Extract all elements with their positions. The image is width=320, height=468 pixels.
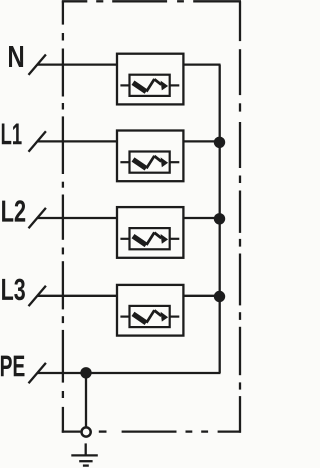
ground (earth) symbol bbox=[71, 455, 98, 465]
enclosure right border (dash-dot) bbox=[239, 1, 241, 432]
earth connection terminal (open circle) bbox=[82, 427, 91, 436]
SPD1 left lead stub bbox=[120, 84, 129, 86]
node: junction dot bus/L2 bbox=[214, 213, 225, 224]
SPD2 right lead stub bbox=[170, 161, 180, 163]
terminal label N bbox=[9, 46, 23, 67]
SPD3 outer enclosure box bbox=[117, 207, 183, 258]
SPD2 left lead stub bbox=[120, 161, 129, 163]
SPD3 left lead stub bbox=[120, 238, 129, 240]
wire L3 terminal to SPD4 bbox=[37, 295, 117, 297]
slash mark on conductor L2 bbox=[29, 208, 46, 228]
wire SPD1 output to bus corner bbox=[183, 63, 220, 65]
slash mark on conductor PE bbox=[29, 363, 46, 383]
SPD module 3 (L2) bbox=[117, 207, 183, 258]
SPD4 lightning arrow symbol bbox=[133, 310, 168, 323]
node: junction dot on PE wire bbox=[80, 367, 91, 378]
SPD2 outer enclosure box bbox=[117, 131, 183, 182]
wire SPD3 output to bus bbox=[183, 217, 219, 219]
SPD4 right lead stub bbox=[170, 316, 180, 318]
vertical bus wire (common PE bus) bbox=[219, 65, 221, 373]
wire PE node down to earth terminal bbox=[85, 373, 87, 428]
wire SPD4 output to bus bbox=[183, 295, 219, 297]
SPD4 left lead stub bbox=[120, 316, 129, 318]
wire L2 terminal to SPD3 bbox=[37, 217, 117, 219]
node: junction dot bus/L1 bbox=[214, 137, 225, 148]
SPD1 right lead stub bbox=[170, 84, 180, 86]
SPD2 spark-gap inner box bbox=[130, 152, 170, 173]
terminal label L3 bbox=[2, 279, 25, 301]
terminal label PE bbox=[1, 356, 25, 377]
SPD4 outer enclosure box bbox=[117, 285, 183, 336]
wire N terminal to SPD1 bbox=[37, 63, 117, 65]
wire earth terminal to ground symbol bbox=[85, 443, 87, 455]
SPD3 lightning arrow symbol bbox=[133, 232, 168, 245]
SPD3 right lead stub bbox=[170, 238, 180, 240]
SPD module 2 (L1) bbox=[117, 131, 183, 182]
SPD1 spark-gap inner box bbox=[130, 75, 170, 96]
slash mark on conductor L1 bbox=[29, 131, 46, 151]
terminal label L2 bbox=[2, 200, 25, 221]
SPD2 lightning arrow symbol bbox=[133, 156, 168, 169]
terminal label L1 bbox=[2, 124, 22, 145]
slash mark on conductor L3 bbox=[29, 286, 46, 306]
enclosure bottom border (dash-dot) bbox=[62, 430, 241, 432]
SPD1 outer enclosure box bbox=[117, 54, 183, 105]
wire SPD2 output to bus bbox=[183, 140, 219, 142]
enclosure top border (dash-dot) bbox=[62, 0, 241, 2]
SPD3 spark-gap inner box bbox=[130, 228, 170, 249]
wire L1 terminal to SPD2 bbox=[37, 140, 117, 142]
SPD module 4 (L3) bbox=[117, 285, 183, 336]
wire PE terminal to bus bbox=[37, 372, 220, 374]
SPD module 1 (N) bbox=[117, 54, 183, 105]
SPD1 lightning arrow symbol bbox=[133, 79, 168, 92]
enclosure left border (dash-dot) bbox=[62, 1, 64, 432]
node: junction dot bus/L3 bbox=[214, 291, 225, 302]
SPD4 spark-gap inner box bbox=[130, 306, 170, 327]
slash mark on conductor N bbox=[29, 55, 46, 75]
